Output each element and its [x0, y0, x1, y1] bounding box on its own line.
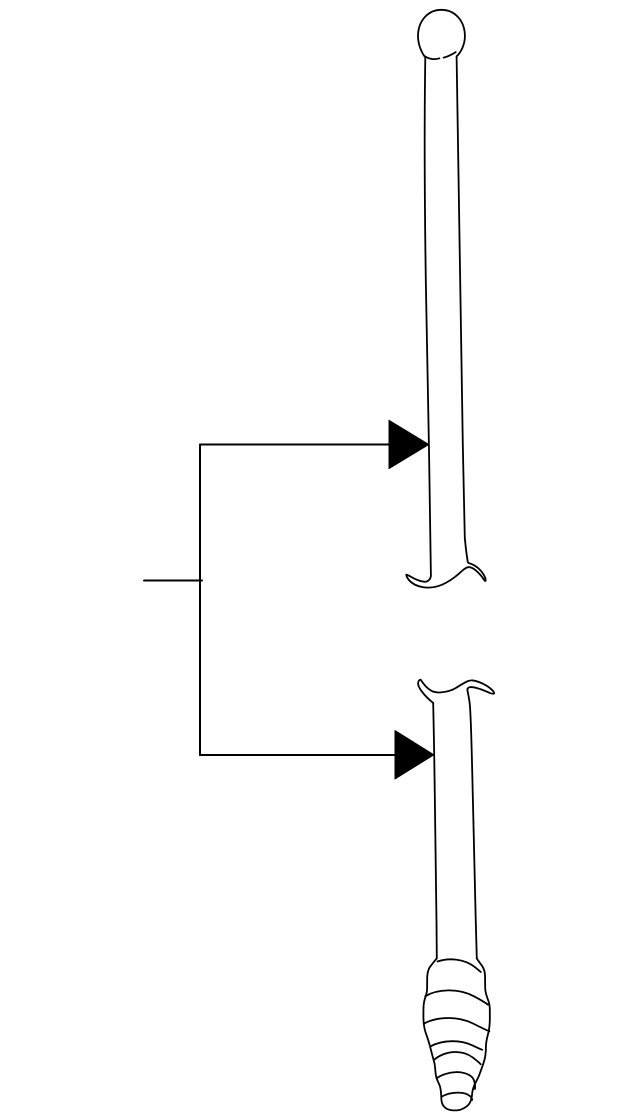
- ferrule band line E: [434, 1052, 480, 1064]
- leader line: bottom horizontal: [200, 754, 398, 756]
- ball/rod seam left: [425, 56, 439, 59]
- ferrule band line A: [438, 959, 481, 972]
- mast break squiggle (torn end): [406, 538, 485, 588]
- leader line: vertical: [199, 445, 201, 756]
- mast rod right edge: [457, 57, 465, 539]
- lower mast rod right edge: [467, 690, 477, 959]
- leader line: left stub: [144, 580, 202, 582]
- ferrule band line C: [424, 1018, 489, 1031]
- lower mast break squiggle (torn top end): [418, 680, 494, 703]
- ferrule band line B: [425, 990, 488, 1004]
- arrow to upper mast: [389, 420, 429, 468]
- arrow to lower mast: [395, 731, 434, 780]
- ferrule outline (threaded base): [423, 958, 489, 1110]
- ferrule tip end-face arc: [442, 1093, 473, 1100]
- ferrule band line D: [430, 1041, 482, 1050]
- lower mast rod left edge: [433, 703, 437, 958]
- ball/rod seam right: [444, 52, 456, 58]
- ferrule band line F: [437, 1072, 475, 1089]
- leader line: top horizontal: [200, 444, 392, 446]
- antenna mast upper section: ball top: [418, 10, 465, 58]
- mast rod left edge: [425, 58, 431, 576]
